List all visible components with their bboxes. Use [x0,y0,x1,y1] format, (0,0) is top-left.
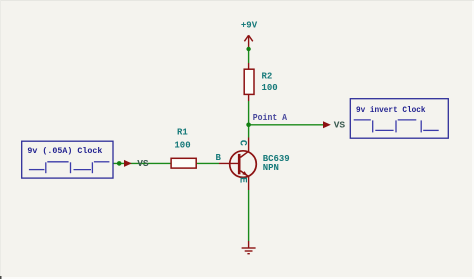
svg-text:Point A: Point A [253,112,288,123]
svg-text:E: E [236,177,247,183]
svg-text:NPN: NPN [263,163,279,173]
svg-text:R1: R1 [177,127,188,137]
svg-text:+9V: +9V [241,20,258,30]
svg-text:9v (.05A) Clock: 9v (.05A) Clock [27,146,102,156]
svg-text:9v invert Clock: 9v invert Clock [356,105,426,115]
svg-text:VS: VS [137,158,149,169]
svg-text:VS: VS [334,120,346,131]
svg-text:B: B [216,153,222,163]
svg-text:100: 100 [174,140,190,150]
svg-text:100: 100 [262,83,278,93]
svg-text:C: C [236,140,247,146]
svg-text:R2: R2 [262,71,273,81]
